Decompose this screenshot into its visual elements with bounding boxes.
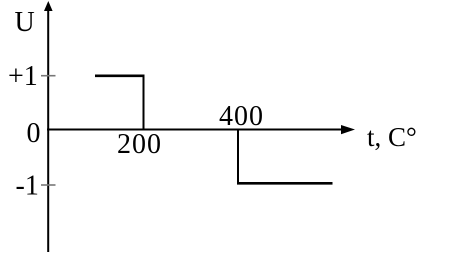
svg-text:t, C°: t, C° (367, 122, 417, 152)
svg-text:-1: -1 (16, 171, 39, 202)
svg-text:400: 400 (219, 101, 264, 132)
svg-text:U: U (15, 7, 35, 38)
svg-text:+1: +1 (8, 61, 38, 92)
svg-text:0: 0 (27, 118, 41, 149)
svg-text:200: 200 (117, 129, 162, 160)
